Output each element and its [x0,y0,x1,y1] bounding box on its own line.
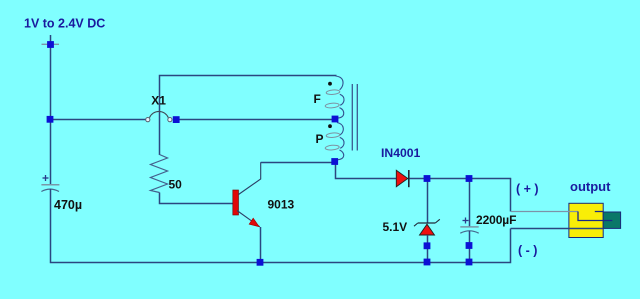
wire collector rail [261,162,332,164]
node zener bottom [424,242,431,249]
capacitor 470u [41,175,59,192]
node cap bottom [466,242,473,249]
winding P loop2 [325,145,339,151]
jack inner contact lines [578,212,612,221]
transformer T1 [325,76,357,160]
node battery terminal [47,41,54,48]
wire battery feed horizontal [51,119,147,121]
wire diode to corner [410,178,512,180]
wire left vertical top [50,35,52,185]
winding P entry arc [337,123,343,136]
wire top rail [160,76,337,156]
node rail cap [466,259,473,266]
node rail emitter [257,259,264,266]
node transformer bottom [331,158,338,165]
wire plus lead to jack [510,179,512,212]
zener diode 5.1V [414,219,440,262]
node rail zener [424,259,431,266]
winding P loop1 [326,132,340,138]
svg-text:50: 50 [169,178,183,192]
output jack [569,203,621,237]
dot P [328,124,332,128]
node diode rail right [466,175,473,182]
core line 1 [351,84,353,151]
wire minus lead to jack [511,228,604,230]
node diode rail left [424,175,431,182]
winding P exit arc [337,150,343,160]
svg-text:9013: 9013 [268,198,295,212]
winding F loop1 [326,89,340,95]
svg-text:IN4001: IN4001 [381,146,421,160]
node transformer mid [332,116,339,123]
svg-text:F: F [314,92,321,106]
wire cap branch [469,179,471,227]
wire switch to transformer mid [178,119,333,121]
winding F loop2 [325,103,339,109]
wire left vertical bottom + ground rail [51,189,511,263]
diode IN4001 [396,170,409,187]
transistor Q1 9013 [233,162,261,262]
svg-text:( - ): ( - ) [518,244,537,258]
svg-text:output: output [570,179,611,194]
switch X1 [146,111,172,121]
winding F exit arc [337,108,344,119]
svg-text:470µ: 470µ [54,198,82,212]
svg-text:5.1V: 5.1V [383,220,408,234]
svg-text:1V to 2.4V DC: 1V to 2.4V DC [24,17,105,31]
capacitor 2200uF [460,218,478,263]
node after switch [173,116,180,123]
svg-text:2200µF: 2200µF [476,213,516,227]
dot F [328,82,332,86]
core line 2 [356,84,358,151]
svg-text:X1: X1 [151,94,166,108]
winding P mid arc [340,137,344,148]
wire resistor to base [160,193,233,204]
svg-text:( + ): ( + ) [516,182,539,196]
svg-text:P: P [316,132,324,146]
resistor 50 [151,155,168,193]
node left junction [47,116,54,123]
winding F mid arc [340,94,344,105]
wire zener branch [427,179,429,223]
winding F entry arc [336,76,344,90]
wire P bottom to diode row [336,163,397,179]
battery terminal port pin [42,43,60,45]
